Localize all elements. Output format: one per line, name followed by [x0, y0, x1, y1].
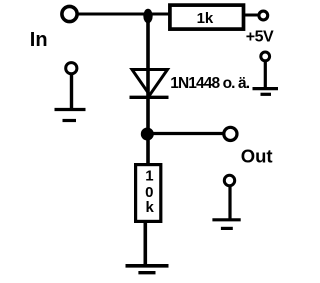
ground right below +5V	[253, 52, 279, 94]
ground left below In	[55, 63, 86, 121]
wire D1 to node B	[146, 97, 150, 134]
terminal Out	[224, 127, 237, 140]
resistor R2	[136, 165, 161, 222]
svg-text:k: k	[146, 199, 155, 216]
svg-text:1N1448 o. ä.: 1N1448 o. ä.	[170, 75, 249, 92]
svg-text:In: In	[30, 29, 48, 51]
wire In terminal to node A	[78, 13, 149, 16]
svg-text:1: 1	[145, 167, 153, 184]
resistor R1	[170, 5, 244, 29]
diode D1	[130, 70, 169, 98]
wire node B to Out terminal	[148, 132, 223, 135]
wire node B to R2	[146, 134, 150, 163]
ground bottom	[126, 266, 169, 273]
node B	[141, 128, 154, 141]
ground below Out	[212, 175, 240, 228]
svg-text:1k: 1k	[197, 10, 214, 27]
wire R1 to +5V terminal	[244, 14, 259, 17]
wire R2 to bottom ground	[144, 222, 148, 265]
svg-text:+5V: +5V	[246, 28, 274, 45]
node A	[143, 9, 152, 23]
terminal +5V	[259, 11, 268, 20]
terminal In	[62, 6, 77, 21]
svg-text:Out: Out	[241, 146, 273, 167]
wire node A down to D1	[146, 15, 150, 70]
wire node A to R1	[148, 13, 170, 16]
